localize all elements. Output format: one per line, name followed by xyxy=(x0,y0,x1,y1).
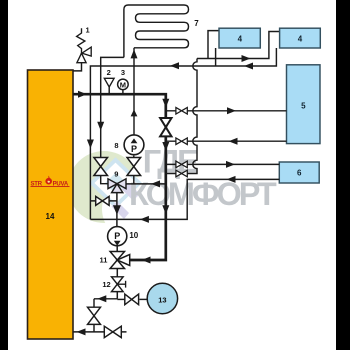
wire pump10 to valve11 xyxy=(116,246,118,252)
svg-text:11: 11 xyxy=(100,256,108,265)
svg-text:12: 12 xyxy=(102,280,110,289)
funnel 2 xyxy=(104,78,114,87)
wire tee right to tank xyxy=(117,298,126,300)
drain valve xyxy=(104,326,121,337)
wire valve12 down tee xyxy=(116,292,118,299)
svg-text:9: 9 xyxy=(114,170,118,179)
branch 2 valve xyxy=(176,138,187,145)
arrow up serp riser xyxy=(131,49,138,58)
radiator 4 left xyxy=(219,28,260,48)
svg-text:8: 8 xyxy=(114,141,118,150)
svg-text:P: P xyxy=(131,144,137,154)
arrow left into valve 11 xyxy=(142,257,151,264)
arrow down serp return xyxy=(97,122,104,131)
svg-text:10: 10 xyxy=(129,231,138,240)
svg-text:КОМФОРТ: КОМФОРТ xyxy=(129,176,277,212)
branch 4 wire xyxy=(166,173,187,175)
wire boiler return bottom xyxy=(73,331,127,333)
watermark logo diamond xyxy=(68,151,166,241)
boiler 14 xyxy=(28,70,74,339)
three-way valve 11 xyxy=(110,252,130,269)
manifold riser with hops xyxy=(187,59,197,174)
safety valve 1 xyxy=(77,28,92,62)
wire left drop to boiler return xyxy=(93,299,95,332)
bypass wire xyxy=(90,200,117,202)
wire serpentine riser / pump8 branch xyxy=(133,48,135,135)
bypass valve xyxy=(96,196,109,205)
black bar left xyxy=(0,0,8,350)
wire tee left xyxy=(94,298,117,300)
arrow return mid xyxy=(170,62,179,69)
svg-text:4: 4 xyxy=(298,35,303,44)
valve on pipe (thick bowtie) xyxy=(160,118,171,136)
arrow left on lower return xyxy=(140,216,149,223)
arrow down pipe 1 xyxy=(162,99,169,108)
arrow down pipe 3 xyxy=(162,205,169,214)
svg-text:13: 13 xyxy=(158,295,166,304)
svg-text:3: 3 xyxy=(121,68,125,77)
svg-text:1: 1 xyxy=(86,26,90,35)
arrow down return drop xyxy=(87,140,94,149)
svg-text:14: 14 xyxy=(46,212,55,221)
valve on serpentine return (vertical bowtie) xyxy=(94,158,108,176)
radiator supply wire xyxy=(197,32,280,59)
wire serpentine return xyxy=(101,57,124,183)
branch 3 wire xyxy=(166,163,279,165)
motor valve 3 xyxy=(118,79,129,90)
wire main supply (thick) xyxy=(73,94,166,260)
radiator return wire xyxy=(90,48,276,219)
arrow up pump8 branch xyxy=(131,109,138,116)
branch 3 valve xyxy=(176,161,187,168)
branch 4 valve xyxy=(176,170,187,177)
box 6 xyxy=(279,162,319,183)
drop valve xyxy=(88,307,101,324)
valve under pump8 (vertical bowtie) xyxy=(127,158,141,176)
three-way valve 9 xyxy=(108,179,126,193)
wire valve11 to valve12 xyxy=(116,269,118,278)
svg-text:6: 6 xyxy=(297,169,302,178)
tank valve xyxy=(125,294,139,305)
pump 10 xyxy=(108,227,127,246)
radiator 4 right xyxy=(280,28,321,48)
svg-text:7: 7 xyxy=(194,19,199,28)
branch 1 valve xyxy=(176,108,187,115)
valve9 right wire xyxy=(125,183,166,185)
arrow supply right xyxy=(78,91,87,98)
branch 2 wire xyxy=(166,140,287,142)
arrow down pipe 2 xyxy=(162,142,169,151)
box 5 xyxy=(287,65,321,144)
black bar right xyxy=(336,0,350,350)
arrow return near rad2 xyxy=(244,63,253,70)
box6 return wire xyxy=(90,179,279,219)
svg-text:M: M xyxy=(120,80,126,89)
svg-text:P: P xyxy=(114,231,120,241)
arrow supply rads xyxy=(242,55,251,62)
valve 12 xyxy=(112,277,124,292)
svg-text:5: 5 xyxy=(301,102,306,111)
valve9 bottom wire xyxy=(116,193,118,227)
wire safety branch xyxy=(73,63,82,71)
branch 1 wire xyxy=(166,110,287,112)
pump 8 xyxy=(124,135,144,155)
serpentine coil 7 xyxy=(124,5,189,57)
svg-text:2: 2 xyxy=(107,68,111,77)
svg-text:4: 4 xyxy=(238,35,243,44)
expansion tank 13 xyxy=(147,283,177,313)
